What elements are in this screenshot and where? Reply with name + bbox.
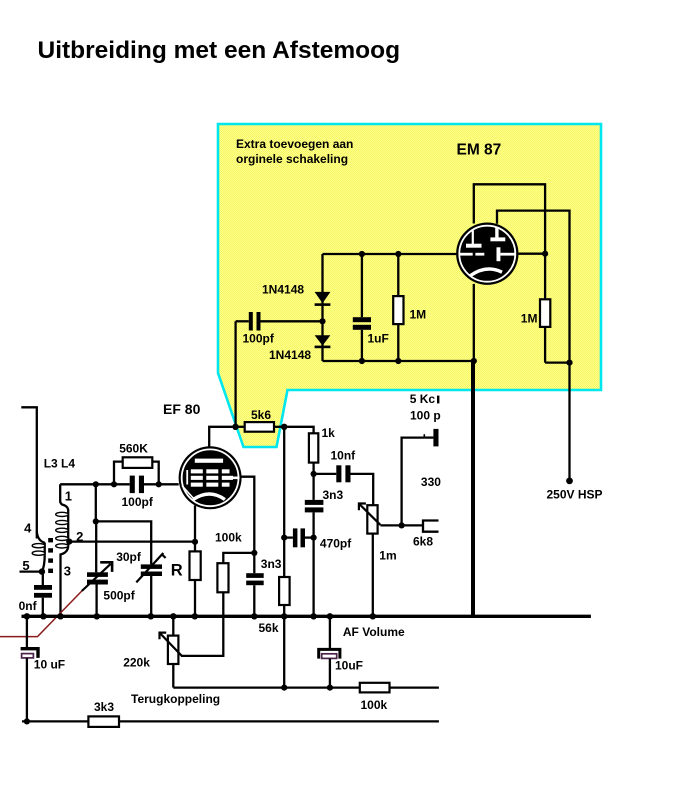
- node wiper junction: [399, 522, 405, 528]
- svg-text:1M: 1M: [521, 312, 538, 326]
- ground bus: [22, 615, 591, 618]
- svg-text:1: 1: [65, 489, 72, 504]
- svg-text:1N4148: 1N4148: [262, 282, 304, 296]
- svg-text:560K: 560K: [119, 442, 148, 456]
- wire antenna stub top-left: [21, 407, 37, 538]
- wire EF80 cathode drop: [194, 505, 196, 551]
- svg-text:330: 330: [421, 475, 441, 489]
- node 1M-2 to 250V rail: [566, 360, 572, 366]
- node bus 3n3: [251, 613, 257, 619]
- wire EM87 right pin: [519, 253, 546, 255]
- wire EM87 top-right pin to 250V rail: [497, 211, 570, 481]
- wire 1m wiper to node: [380, 524, 401, 526]
- wire 56k below bus: [283, 616, 285, 687]
- node cathode / tap2: [192, 539, 198, 545]
- capacitor C 100p (5 Kc filter): [402, 438, 425, 526]
- svg-text:R: R: [171, 561, 183, 579]
- diode D1 1N4148: [315, 292, 331, 303]
- resistor R 1M (second): [540, 299, 550, 327]
- capacitor C 3n3 (first): [312, 474, 314, 500]
- svg-text:100k: 100k: [215, 531, 242, 545]
- svg-text:6k8: 6k8: [413, 534, 433, 548]
- node screen junction: [251, 550, 257, 556]
- wire 5k6 to 1k: [284, 427, 313, 434]
- svg-text:EF 80: EF 80: [163, 401, 201, 417]
- tube U1 EM87: [456, 223, 518, 285]
- svg-text:Extra toevoegen aan: Extra toevoegen aan: [236, 137, 353, 151]
- wire funnel drop to 5k6 node: [234, 321, 236, 427]
- wire tap 2 to cathode: [69, 540, 195, 542]
- wire jog to 30pf: [96, 521, 151, 564]
- node bus 30pf: [148, 613, 154, 619]
- wire EM87 anode loop (top-left pin to 1M-2): [474, 184, 545, 299]
- capacitor C 100pf (in note box): [236, 320, 249, 322]
- wire grid line (coil tap 1 to EF80 grid): [60, 483, 130, 485]
- node return 10uF: [24, 718, 30, 724]
- capacitor C 10uF (AF): [329, 616, 331, 649]
- node grid tuning tap: [93, 481, 99, 487]
- svg-text:30pf: 30pf: [116, 550, 142, 564]
- svg-text:220k: 220k: [123, 655, 150, 669]
- wire screen to 100k: [223, 553, 254, 563]
- node bus 56k: [281, 613, 287, 619]
- note box (yellow highlight region): [218, 124, 601, 447]
- svg-text:100 p: 100 p: [410, 408, 441, 422]
- node pin5 junction: [39, 568, 45, 574]
- wire 5k6 node down to 56k: [283, 427, 285, 577]
- svg-text:1k: 1k: [322, 426, 336, 440]
- node cathode junction: [471, 358, 477, 364]
- svg-text:3: 3: [64, 564, 71, 579]
- resistor R 3k3: [88, 716, 119, 727]
- diode D2 1N4148: [315, 335, 331, 345]
- svg-text:10uF: 10uF: [335, 658, 363, 672]
- capacitor C 30pf (trimmer): [141, 564, 162, 569]
- wire L4 bottom tail: [42, 556, 45, 572]
- node 1M bottom: [395, 358, 401, 364]
- svg-text:5 Kc: 5 Kc: [410, 392, 436, 406]
- resistor R 6k8 (clipped): [402, 524, 423, 526]
- node bus 10uF: [24, 613, 30, 619]
- svg-text:1m: 1m: [379, 549, 396, 563]
- resistor R 560K: [114, 462, 123, 485]
- svg-text:orginele schakeling: orginele schakeling: [236, 152, 348, 166]
- capacitor C 10 uF (cathode decoupling): [26, 616, 28, 648]
- svg-text:0nf: 0nf: [19, 599, 38, 613]
- node bus 220k: [170, 613, 176, 619]
- svg-text:250V HSP: 250V HSP: [547, 488, 603, 502]
- node feedback 10uF: [327, 685, 333, 691]
- node feedback 56k: [281, 685, 287, 691]
- wire top rail (diodes to EM87 grid): [323, 253, 457, 255]
- resistor R (cathode): [190, 551, 201, 580]
- node 470pf right: [311, 535, 317, 541]
- node EM87 right pin to 1M-2: [542, 251, 548, 257]
- svg-text:L3 L4: L3 L4: [44, 457, 76, 471]
- svg-text:100pf: 100pf: [122, 495, 154, 509]
- tube U2 EF80: [179, 446, 242, 509]
- svg-text:10 uF: 10 uF: [34, 657, 65, 671]
- capacitor C 1uF: [361, 254, 363, 317]
- svg-text:AF Volume: AF Volume: [343, 625, 405, 639]
- svg-text:Terugkoppeling: Terugkoppeling: [131, 692, 220, 706]
- node tap 2: [66, 539, 72, 545]
- core dashed line: [48, 538, 53, 573]
- wire pin 5 stub: [20, 570, 42, 572]
- node 560K left: [111, 481, 117, 487]
- node diode junction: [319, 318, 325, 324]
- node bus 10uF-2: [327, 613, 333, 619]
- wire EF80 anode to 5k6 node: [209, 427, 235, 447]
- node tuning jog: [93, 518, 99, 524]
- inductor L4 (left coil): [37, 531, 45, 543]
- svg-text:470pf: 470pf: [320, 537, 352, 551]
- svg-text:4: 4: [24, 520, 32, 535]
- svg-text:100k: 100k: [361, 698, 388, 712]
- resistor R 5k6: [245, 422, 274, 432]
- wire feedback line: [173, 686, 359, 688]
- wire thick drop to ground bus: [471, 361, 475, 616]
- bottom return line: [22, 720, 439, 722]
- wire to 500pf: [95, 521, 97, 572]
- capacitor C 100nf: [42, 572, 44, 585]
- svg-text:EM 87: EM 87: [457, 142, 502, 159]
- gang line (maroon): [0, 591, 82, 637]
- inductor L3 (right coil): [60, 484, 68, 510]
- capacitor C 10nf: [314, 473, 337, 475]
- node 5k6 left: [232, 424, 238, 430]
- resistor R 100k (screen): [217, 563, 228, 592]
- node 1M top: [395, 251, 401, 257]
- wire L3 bottom tail: [61, 546, 69, 616]
- wire bottom rail in note box: [323, 360, 474, 362]
- node 1uF top: [359, 251, 365, 257]
- resistor R 56k: [279, 577, 290, 605]
- node 560K right: [156, 481, 162, 487]
- capacitor C 500pf (variable): [87, 572, 108, 577]
- terminal 250V HSP: [566, 478, 573, 485]
- wire tuning drop: [95, 484, 97, 521]
- svg-text:5k6: 5k6: [251, 408, 271, 422]
- wire EF80 screen pin: [242, 477, 255, 553]
- capacitor C 470pf: [284, 536, 293, 538]
- potentiometer 220k: [172, 616, 174, 635]
- svg-text:3n3: 3n3: [261, 557, 282, 571]
- svg-text:3n3: 3n3: [323, 488, 344, 502]
- svg-text:1M: 1M: [410, 308, 427, 322]
- svg-text:3k3: 3k3: [94, 700, 114, 714]
- svg-text:56k: 56k: [259, 621, 279, 635]
- capacitor C 3n3 (second): [253, 553, 255, 573]
- node bus 100nf: [40, 613, 46, 619]
- wire 100k bottom to 220k wiper: [181, 592, 223, 656]
- node 470pf left: [281, 535, 287, 541]
- resistor R 1M (first): [397, 254, 399, 296]
- svg-text:1N4148: 1N4148: [269, 348, 311, 362]
- node bus L3: [57, 613, 63, 619]
- node 1uF bottom: [359, 358, 365, 364]
- svg-text:100pf: 100pf: [243, 331, 275, 345]
- node bus 3n3-470pf: [310, 613, 316, 619]
- node 5k6 right: [281, 424, 287, 430]
- node 1k bottom: [311, 471, 317, 477]
- svg-text:Uitbreiding met een Afstemoog: Uitbreiding met een Afstemoog: [38, 37, 401, 64]
- resistor R 1k: [309, 433, 318, 462]
- resistor R 100k (feedback): [360, 683, 390, 693]
- node bus R: [192, 613, 198, 619]
- capacitor C 100pf (grid): [130, 476, 135, 494]
- node bus 500pf: [94, 613, 100, 619]
- svg-text:1uF: 1uF: [368, 331, 389, 345]
- svg-text:10nf: 10nf: [331, 449, 357, 463]
- potentiometer 1m: [367, 505, 377, 533]
- node bus 1m: [370, 613, 376, 619]
- wire diode chain vertical: [321, 254, 323, 361]
- wire EM87 cathode drop: [473, 284, 475, 361]
- svg-text:500pf: 500pf: [103, 589, 135, 603]
